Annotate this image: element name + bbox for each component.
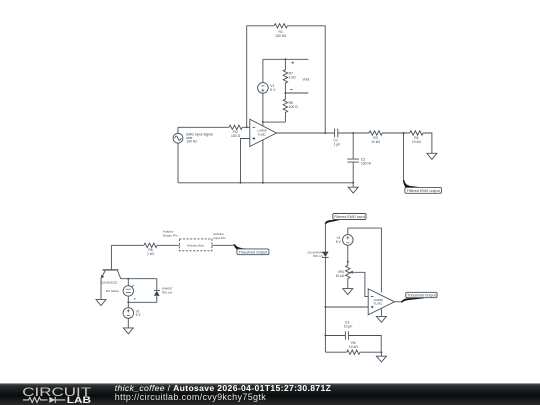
svg-text:100 kΩ: 100 kΩ <box>275 34 286 38</box>
wire V+ supply loop <box>348 228 382 292</box>
op-amp U1 V- pin <box>262 140 264 183</box>
ground U2 <box>376 316 386 322</box>
motor M1 DC Motor <box>127 279 129 286</box>
wire base rail <box>111 244 143 246</box>
wire R2 to opamp <box>242 126 250 128</box>
svg-text:TL081: TL081 <box>374 302 383 306</box>
BOTTOM LEFT CIRCUIT <box>96 239 269 334</box>
svg-text:100 Ω: 100 Ω <box>231 134 241 138</box>
svg-text:Filtered EMG input: Filtered EMG input <box>334 215 365 219</box>
ground bottom-right <box>376 352 386 362</box>
source V1 top <box>258 83 269 94</box>
flag Filtered EMG input <box>325 219 342 224</box>
svg-text:DC Motor: DC Motor <box>106 289 119 293</box>
svg-text:LAB: LAB <box>67 395 92 405</box>
op-amp U2 <box>368 289 394 315</box>
svg-text:700 mV: 700 mV <box>313 254 325 258</box>
potentiometer VR1 <box>346 265 350 288</box>
svg-text:Threshold Output: Threshold Output <box>407 294 436 298</box>
svg-text:1 kΩ: 1 kΩ <box>289 76 297 80</box>
svg-text:Vout: Vout <box>303 77 310 81</box>
node marker <box>134 298 135 299</box>
ground VR1 <box>343 289 353 295</box>
ground Q1 emitter <box>96 300 106 306</box>
transistor Q1 <box>103 269 119 271</box>
svg-text:Arduino Box: Arduino Box <box>187 244 204 248</box>
resistor R8 <box>283 93 287 122</box>
svg-text:Filtered EMG output: Filtered EMG output <box>407 189 440 193</box>
svg-text:100 nF: 100 nF <box>361 161 372 165</box>
arduino block <box>179 239 212 251</box>
svg-text:5 V: 5 V <box>136 313 142 317</box>
wire left vertical <box>324 223 326 251</box>
resistor R3 <box>369 131 382 135</box>
source V1 bottom-left <box>127 302 129 307</box>
svg-text:100 Ω: 100 Ω <box>289 105 299 109</box>
logo resistor-diode squiggle <box>23 397 66 403</box>
capacitor C2 <box>347 133 359 183</box>
svg-text:5 V: 5 V <box>336 240 342 244</box>
flag Threshold Output 2 <box>401 298 424 303</box>
svg-text:10 kΩ: 10 kΩ <box>371 140 380 144</box>
wire non-inverting input <box>241 139 250 183</box>
svg-text:10 µF: 10 µF <box>344 325 353 329</box>
op-amp U1 V+ pin <box>262 122 264 126</box>
resistor R7 <box>283 59 287 93</box>
minus terminal stub <box>285 92 308 94</box>
svg-text:5 V: 5 V <box>270 88 276 92</box>
wire R4 to ground <box>423 133 432 153</box>
wire R6 to arduino box <box>157 244 179 246</box>
op-amp U1 <box>250 119 277 146</box>
op-amp U2 V- pin <box>380 308 382 316</box>
ground V1 bottom-left <box>123 328 133 334</box>
svg-text:10 kΩ: 10 kΩ <box>412 140 421 144</box>
wire feedback left vertical <box>247 26 274 128</box>
wire output rail <box>276 132 334 134</box>
svg-text:Output Pin: Output Pin <box>163 233 178 237</box>
wire to output flag <box>403 133 405 182</box>
diode D2 1N4007 <box>154 279 160 303</box>
svg-text:700 mV: 700 mV <box>162 290 174 294</box>
wire box to flag <box>212 244 234 246</box>
wire bottom rail <box>178 182 353 184</box>
wire non-inverting input <box>325 306 368 308</box>
wire bottom <box>325 351 346 353</box>
wire collector rail <box>121 278 157 280</box>
flag Threshold Output <box>233 244 250 249</box>
wire motor bottom rail <box>128 301 157 303</box>
svg-text:10 kΩ: 10 kΩ <box>349 345 358 349</box>
wire supply top rail <box>263 58 308 60</box>
svg-text:http://circuitlab.com/cvy9kchy: http://circuitlab.com/cvy9kchy75gtk <box>115 392 266 402</box>
capacitor C1 <box>335 129 338 138</box>
wire base vertical <box>110 245 112 270</box>
wire feedback right vertical <box>287 26 325 133</box>
capacitor C3 <box>324 335 326 337</box>
ground C2 <box>352 182 354 184</box>
svg-text:1 kΩ: 1 kΩ <box>147 252 155 256</box>
resistor R2 <box>229 125 242 129</box>
node inverting input <box>246 126 248 128</box>
BOTTOM RIGHT CIRCUIT <box>322 214 437 363</box>
svg-text:TL081: TL081 <box>257 132 266 136</box>
wire output <box>395 301 402 303</box>
svg-text:1 µF: 1 µF <box>334 143 341 147</box>
source EMG Input Signal <box>173 133 183 143</box>
diode D1 1N4148 <box>322 252 328 257</box>
minus terminal mark <box>290 88 293 90</box>
wire R8 to V+ node <box>263 121 286 123</box>
svg-text:Input Pin: Input Pin <box>213 236 225 240</box>
wire input top <box>178 126 229 128</box>
ground right <box>427 153 437 159</box>
resistor R6b <box>347 350 360 354</box>
svg-text:10 kΩ: 10 kΩ <box>335 274 344 278</box>
resistor R6 <box>144 243 157 247</box>
resistor R4 <box>410 131 423 135</box>
svg-text:Threshold Output: Threshold Output <box>239 251 268 255</box>
wire emitter <box>100 278 102 299</box>
flag Filtered EMG output <box>403 180 419 187</box>
resistor R1 <box>274 24 287 28</box>
svg-text:Q1•2N2222: Q1•2N2222 <box>101 281 117 285</box>
plus terminal mark <box>291 61 294 64</box>
svg-text:100 Hz: 100 Hz <box>186 140 197 144</box>
source V1 bottom-right <box>343 235 354 246</box>
